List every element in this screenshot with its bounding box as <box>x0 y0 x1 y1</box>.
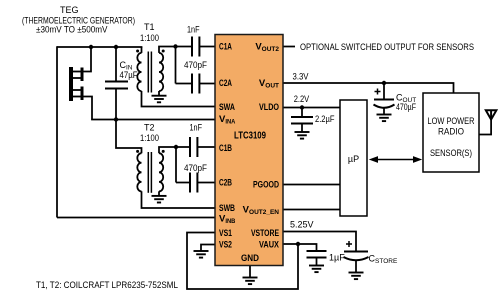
wire 1uF to ground <box>316 258 318 265</box>
wire T1 primary bottom to SWA <box>142 91 216 107</box>
svg-text:2.2µF: 2.2µF <box>315 114 335 124</box>
wire VAUX to 1uF <box>283 244 317 251</box>
wire CIN top lead <box>115 47 117 82</box>
svg-text:TEG: TEG <box>60 5 79 15</box>
plus sign CSTORE <box>346 241 352 247</box>
TEG thermoelectric generator <box>71 67 82 101</box>
T1 phase dots <box>136 50 139 53</box>
wire PGOOD to uP <box>283 184 340 186</box>
svg-text:SWB: SWB <box>219 203 235 214</box>
wire node A to 470pF A <box>176 83 193 85</box>
wire VSTORE to CSTORE <box>283 232 356 252</box>
wire 2.2uF lead <box>301 108 303 118</box>
wire CIN bottom lead <box>115 89 117 120</box>
svg-text:2.2V: 2.2V <box>294 94 310 104</box>
svg-text:SWA: SWA <box>219 102 235 113</box>
wire node B to 470pF B <box>176 182 190 184</box>
capacitor 1uF <box>307 251 327 258</box>
wire 1nF A to C1A <box>199 46 215 48</box>
wire COUT to ground <box>383 108 385 115</box>
wire top rail <box>57 46 142 48</box>
wire node B to 1nF B <box>176 146 190 148</box>
wire T2 secondary top to node B <box>159 147 176 153</box>
node VOUT/COUT <box>382 81 386 85</box>
wire antenna stem <box>479 120 491 135</box>
ground T1 secondary <box>152 96 167 103</box>
svg-text:T2: T2 <box>144 123 155 133</box>
capacitor CSTORE <box>344 252 369 261</box>
capacitor 470pF B <box>190 173 197 193</box>
node VAUX <box>296 242 300 246</box>
node VLDO <box>300 105 304 109</box>
wire VINA rail <box>92 118 215 121</box>
wire node A to 1nF A <box>176 46 193 48</box>
svg-text:470pF: 470pF <box>184 60 207 70</box>
svg-text:±30mV TO ±500mV: ±30mV TO ±500mV <box>36 25 108 35</box>
svg-text:470pF: 470pF <box>184 163 207 173</box>
svg-text:1µF: 1µF <box>329 253 345 263</box>
antenna <box>486 110 497 119</box>
wire CSTORE to ground <box>355 261 357 272</box>
wire 2.2uF to ground <box>301 124 303 132</box>
wire VOUT2 stub <box>283 46 295 48</box>
IC pin labels <box>219 42 280 264</box>
svg-text:LOW POWER: LOW POWER <box>428 116 475 126</box>
capacitor 1nF A <box>192 37 199 57</box>
node A <box>173 44 177 48</box>
svg-text:47µF: 47µF <box>120 70 138 80</box>
ground T2 secondary <box>152 196 167 203</box>
node TEG top <box>89 45 93 49</box>
wire VINB line <box>57 217 215 219</box>
svg-text:RADIO: RADIO <box>438 127 464 137</box>
wire T1 primary top lead <box>141 47 143 53</box>
ground COUT <box>377 115 392 122</box>
svg-text:VS1: VS1 <box>219 228 233 239</box>
svg-text:1:100: 1:100 <box>140 33 159 43</box>
svg-text:C1A: C1A <box>219 42 232 53</box>
plus sign COUT <box>375 89 381 95</box>
capacitor 470pF A <box>192 74 199 94</box>
T2 phase dots <box>136 150 139 153</box>
transformer T1 <box>137 52 163 93</box>
wire VLDO to uP <box>283 107 340 109</box>
svg-text:C1B: C1B <box>219 143 232 154</box>
wire 470pF B to C2B <box>197 182 215 184</box>
wire 1nF B to C1B <box>197 146 215 148</box>
wire TEG bottom lead <box>84 97 93 120</box>
capacitor COUT <box>374 100 395 108</box>
wire node B drop <box>175 147 177 183</box>
node CIN top <box>114 45 118 49</box>
svg-text:470µF: 470µF <box>396 102 416 112</box>
svg-text:3.3V: 3.3V <box>293 71 309 81</box>
ground CSTORE <box>349 273 364 280</box>
wire T2 secondary bottom to ground <box>158 191 160 196</box>
wire T2 primary bottom to SWB <box>142 191 216 208</box>
wire node A drop <box>175 47 177 84</box>
wire GND pin <box>249 266 251 278</box>
ground 2.2uF <box>295 132 310 139</box>
wire VOUT to radio <box>283 83 454 93</box>
arrow uP-radio <box>369 156 422 163</box>
svg-text:T1: T1 <box>144 22 155 32</box>
svg-text:GND: GND <box>241 253 259 264</box>
wire COUT lead <box>383 83 385 99</box>
capacitor 1nF B <box>190 137 197 157</box>
capacitor CIN <box>105 82 128 89</box>
wire VS2 to ground <box>201 245 215 251</box>
wire T2 primary feed <box>116 120 142 154</box>
svg-text:1:100: 1:100 <box>140 133 159 143</box>
wire T1 secondary bottom to ground <box>158 91 160 96</box>
ground 1uF <box>309 266 324 273</box>
svg-text:C2A: C2A <box>219 78 232 89</box>
svg-text:VLDO: VLDO <box>259 102 279 113</box>
svg-text:LTC3109: LTC3109 <box>234 130 266 142</box>
wire T1 secondary top to node A <box>159 47 176 53</box>
wire VOUT2_EN to uP <box>283 209 340 211</box>
node CIN bottom <box>114 117 118 121</box>
capacitor 2.2uF <box>291 117 313 124</box>
svg-text:1nF: 1nF <box>190 123 203 133</box>
svg-text:C2B: C2B <box>219 178 232 189</box>
svg-text:VS2: VS2 <box>219 240 232 251</box>
wire left vertical (to VINB) <box>56 46 58 217</box>
svg-text:VSTORE: VSTORE <box>251 228 279 239</box>
radio box <box>423 93 479 172</box>
transformer T2 <box>137 152 163 193</box>
svg-text:5.25V: 5.25V <box>290 220 314 230</box>
svg-text:OPTIONAL SWITCHED OUTPUT FOR S: OPTIONAL SWITCHED OUTPUT FOR SENSORS <box>300 42 474 52</box>
svg-text:µP: µP <box>348 154 359 164</box>
svg-text:T1, T2: COILCRAFT LPR6235-752S: T1, T2: COILCRAFT LPR6235-752SML <box>36 280 178 290</box>
wire VS1 loop to VAUX <box>187 233 298 290</box>
svg-text:1nF: 1nF <box>187 25 200 35</box>
op IC LTC3109 <box>215 35 283 266</box>
node B <box>174 145 178 149</box>
svg-text:VAUX: VAUX <box>259 240 280 251</box>
ground GND pin <box>243 278 258 285</box>
wire 470pF A to C2A <box>199 83 215 85</box>
uP box <box>340 100 367 216</box>
svg-text:SENSOR(S): SENSOR(S) <box>430 148 472 158</box>
svg-text:PGOOD: PGOOD <box>253 180 279 191</box>
wire TEG top lead <box>84 47 92 72</box>
ground VS2 <box>194 251 209 258</box>
